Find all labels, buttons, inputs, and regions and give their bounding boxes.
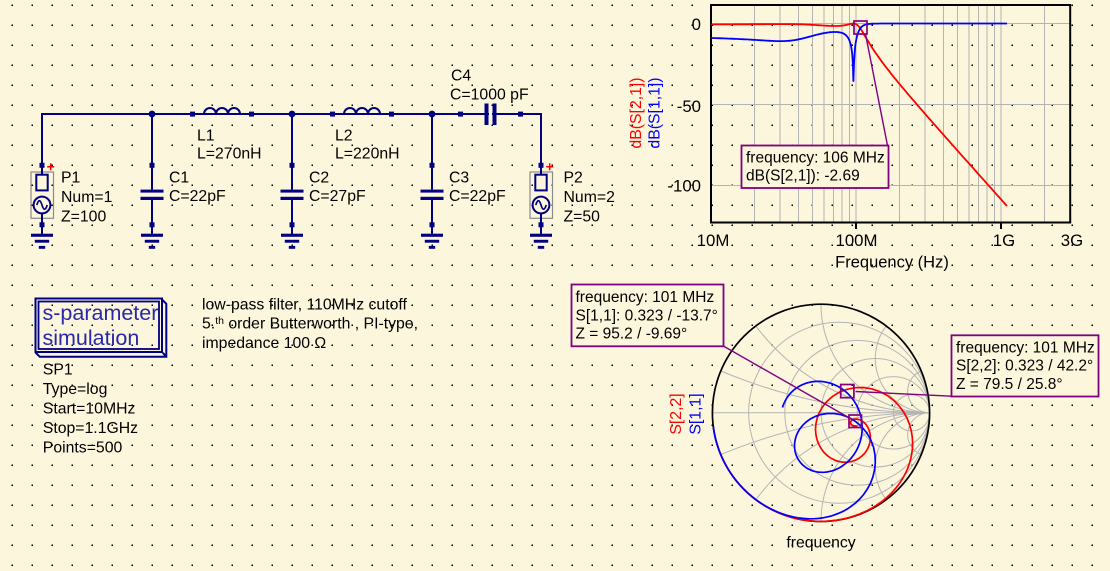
svg-text:P1: P1 xyxy=(61,170,81,187)
label L1 value xyxy=(197,128,262,163)
capacitor C3 xyxy=(421,163,444,234)
label L2 value xyxy=(335,128,400,163)
marker square S22 xyxy=(841,385,854,398)
label C4 value xyxy=(450,68,529,104)
capacitor C1 xyxy=(141,163,164,234)
svg-text:S[2,2]: S[2,2] xyxy=(668,393,685,434)
svg-text:C1: C1 xyxy=(169,170,189,187)
svg-text:frequency: 101 MHz: frequency: 101 MHz xyxy=(576,289,715,306)
node junction at C2 xyxy=(289,111,296,118)
svg-text:SP1: SP1 xyxy=(43,361,73,378)
marker on dB curve xyxy=(854,21,867,34)
wire from node to C1 xyxy=(151,114,153,190)
smith x axis title xyxy=(786,535,855,552)
x axis title xyxy=(835,253,949,271)
svg-text:-100: -100 xyxy=(667,176,701,195)
wire: P1 riser xyxy=(41,113,43,165)
axis label S[1,1] xyxy=(688,393,705,434)
svg-text:C2: C2 xyxy=(309,170,329,187)
svg-text:100M: 100M xyxy=(836,231,878,250)
svg-text:1G: 1G xyxy=(993,231,1015,250)
marker leader line xyxy=(866,34,888,146)
label C3 value xyxy=(449,170,506,205)
label C2 value xyxy=(309,170,366,205)
svg-text:simulation: simulation xyxy=(43,326,140,350)
ground below C3 xyxy=(421,234,443,249)
smith outer circle xyxy=(712,304,929,521)
svg-text:Z=100: Z=100 xyxy=(61,209,106,226)
label P2 values xyxy=(564,170,615,226)
svg-text:Z=50: Z=50 xyxy=(564,209,601,226)
inductor L1 xyxy=(190,108,254,117)
svg-text:L1: L1 xyxy=(197,128,215,145)
capacitor C4 (series) xyxy=(458,104,523,126)
axis ticks xyxy=(856,224,1001,230)
svg-text:Num=1: Num=1 xyxy=(61,189,113,206)
label C1 value xyxy=(169,170,226,205)
curve dB(S[2,1]) red xyxy=(711,24,1007,207)
inductor L2 xyxy=(330,108,394,117)
svg-text:3G: 3G xyxy=(1061,231,1083,250)
svg-text:frequency: frequency xyxy=(786,535,855,552)
svg-text:dB(S[1,1]): dB(S[1,1]) xyxy=(647,77,664,148)
svg-text:S[1,1]: 0.323 / -13.7°: S[1,1]: 0.323 / -13.7° xyxy=(576,307,718,324)
ground below C2 xyxy=(281,234,303,249)
svg-text:10M: 10M xyxy=(697,231,730,250)
curve S[2,2] red xyxy=(716,388,912,522)
svg-text:dB(S[2,1]): dB(S[2,1]) xyxy=(628,77,645,148)
ground below P2 xyxy=(530,234,552,249)
svg-text:C3: C3 xyxy=(449,170,469,187)
svg-text:S[2,2]: 0.323 / 42.2°: S[2,2]: 0.323 / 42.2° xyxy=(956,358,1093,375)
svg-text:Frequency (Hz): Frequency (Hz) xyxy=(835,253,949,271)
ground below C1 xyxy=(141,234,163,249)
svg-text:frequency: 101 MHz: frequency: 101 MHz xyxy=(956,340,1095,357)
svg-text:low-pass filter, 110MHz cutoff: low-pass filter, 110MHz cutoff xyxy=(202,296,407,313)
marker label box S22 xyxy=(952,335,1099,396)
curve S[1,1] blue xyxy=(713,381,875,518)
axis label S[2,2] xyxy=(668,393,685,434)
svg-text:L=220nH: L=220nH xyxy=(335,146,400,163)
svg-text:L2: L2 xyxy=(335,128,353,145)
svg-text:C=22pF: C=22pF xyxy=(169,188,226,205)
svg-text:Points=500: Points=500 xyxy=(43,439,123,456)
ground below P1 xyxy=(31,234,53,249)
marker label box S11 xyxy=(572,285,724,347)
svg-text:-50: -50 xyxy=(677,97,701,116)
svg-text:Stop=1.1GHz: Stop=1.1GHz xyxy=(43,420,138,437)
SP1 parameter text xyxy=(43,361,138,456)
svg-text:C=27pF: C=27pF xyxy=(309,188,366,205)
svg-text:C=22pF: C=22pF xyxy=(449,188,506,205)
svg-text:S[1,1]: S[1,1] xyxy=(688,393,705,434)
power port P1 xyxy=(31,114,54,234)
svg-text:s-parameter: s-parameter xyxy=(43,301,159,325)
simulation box SP1 xyxy=(36,299,167,357)
svg-text:Type=log: Type=log xyxy=(43,381,108,398)
wire from node to C3 xyxy=(431,114,433,190)
leader line to S22 marker xyxy=(856,392,952,397)
svg-text:5.th order Butterworth , PI-ty: 5.th order Butterworth , PI-type, xyxy=(202,315,418,333)
svg-text:frequency: 106 MHz: frequency: 106 MHz xyxy=(746,150,885,167)
svg-text:L=270nH: L=270nH xyxy=(197,146,262,163)
svg-text:Z = 95.2 / -9.69°: Z = 95.2 / -9.69° xyxy=(576,326,688,343)
y axis numbers xyxy=(667,15,701,196)
svg-text:Start=10MHz: Start=10MHz xyxy=(43,400,136,417)
x axis numbers xyxy=(697,231,1084,250)
y axis label dB(S[1,1]) xyxy=(647,77,664,148)
node junction at C3 xyxy=(429,111,436,118)
svg-text:P2: P2 xyxy=(564,170,583,187)
svg-text:impedance 100 Ω: impedance 100 Ω xyxy=(202,335,326,352)
marker label box dB xyxy=(742,146,889,189)
svg-text:dB(S[2,1]): -2.69: dB(S[2,1]): -2.69 xyxy=(746,168,860,185)
diagram gridlines xyxy=(711,5,1070,223)
y axis label dB(S[2,1]) xyxy=(628,77,645,148)
leader line to S11 marker xyxy=(723,346,853,420)
curve dB(S[1,1]) blue xyxy=(711,24,1007,82)
marker square S11 xyxy=(849,415,862,428)
wire from node to C2 xyxy=(291,114,293,190)
label P1 values xyxy=(61,170,113,226)
svg-text:Num=2: Num=2 xyxy=(564,189,615,206)
svg-text:0: 0 xyxy=(692,15,701,34)
wire: P2 riser xyxy=(540,113,542,165)
diagram frame xyxy=(711,5,1070,223)
svg-text:C4: C4 xyxy=(451,68,471,85)
smith grid xyxy=(712,304,929,521)
annotation text xyxy=(202,296,418,352)
svg-text:Z = 79.5 / 25.8°: Z = 79.5 / 25.8° xyxy=(956,376,1063,393)
capacitor C2 xyxy=(281,163,304,234)
simulation box title xyxy=(43,301,159,350)
wire: main horizontal net xyxy=(41,113,542,115)
power port P2 xyxy=(530,114,553,234)
node junction at C1 xyxy=(149,111,156,118)
svg-text:C=1000 pF: C=1000 pF xyxy=(450,87,529,104)
